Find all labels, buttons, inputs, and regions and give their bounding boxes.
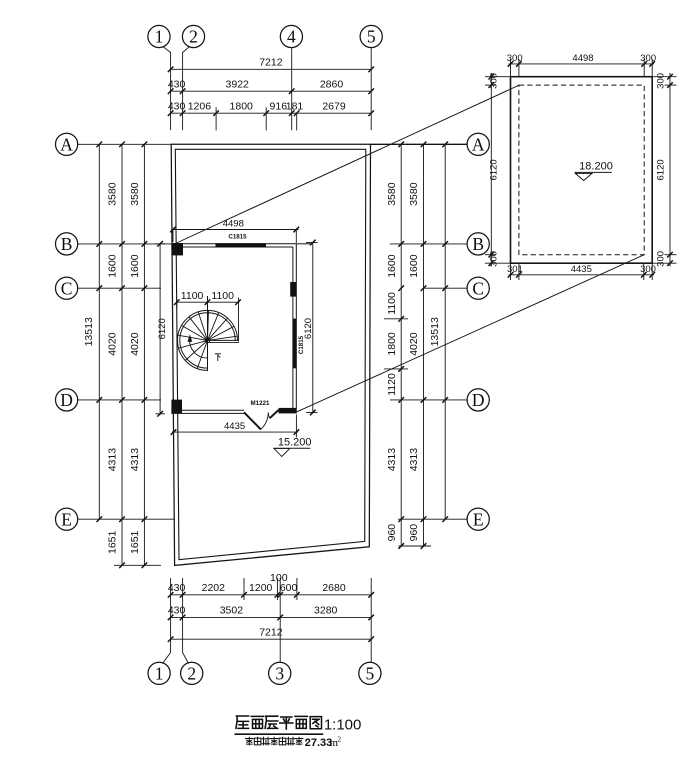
svg-text:2: 2 — [189, 27, 198, 47]
svg-text:4435: 4435 — [224, 421, 245, 432]
svg-text:3922: 3922 — [226, 79, 250, 91]
svg-text:5: 5 — [366, 663, 375, 683]
svg-text:C: C — [61, 278, 73, 298]
svg-text:301: 301 — [507, 264, 523, 275]
svg-text:300: 300 — [655, 73, 666, 89]
svg-text:1120: 1120 — [386, 373, 398, 396]
svg-text:300: 300 — [640, 264, 656, 275]
svg-text:4313: 4313 — [386, 448, 398, 472]
svg-text:2680: 2680 — [322, 582, 346, 594]
svg-text:4020: 4020 — [107, 332, 119, 356]
svg-text:960: 960 — [408, 524, 420, 542]
svg-text:1800: 1800 — [230, 101, 254, 113]
svg-text:M1221: M1221 — [251, 400, 270, 407]
svg-text:300: 300 — [488, 73, 499, 89]
svg-text:1651: 1651 — [129, 530, 141, 554]
svg-text:1: 1 — [155, 27, 164, 47]
svg-text:7212: 7212 — [259, 627, 283, 639]
svg-text:4020: 4020 — [129, 332, 141, 356]
svg-text:1100: 1100 — [181, 290, 204, 302]
svg-text:3580: 3580 — [129, 182, 141, 206]
svg-text:3580: 3580 — [107, 182, 119, 206]
svg-text:300: 300 — [507, 53, 523, 64]
svg-text:600: 600 — [280, 582, 298, 594]
svg-text:300: 300 — [488, 251, 499, 267]
svg-text:C: C — [472, 278, 484, 298]
svg-text:18.200: 18.200 — [579, 160, 613, 172]
svg-text:1206: 1206 — [188, 101, 212, 113]
svg-text:E: E — [473, 509, 484, 529]
svg-text:B: B — [472, 234, 484, 254]
svg-text:7212: 7212 — [259, 57, 283, 69]
svg-text:1600: 1600 — [408, 254, 420, 278]
svg-text:5: 5 — [367, 27, 376, 47]
svg-text:E: E — [61, 509, 72, 529]
svg-text:3: 3 — [275, 663, 284, 683]
svg-text:1600: 1600 — [107, 254, 119, 278]
svg-text:6120: 6120 — [655, 159, 666, 180]
svg-text:6120: 6120 — [488, 159, 499, 180]
svg-text:2: 2 — [187, 663, 196, 683]
svg-text:1100: 1100 — [211, 290, 234, 302]
svg-text:13513: 13513 — [429, 317, 441, 346]
svg-text:1100: 1100 — [386, 292, 398, 315]
svg-text:3580: 3580 — [386, 182, 398, 206]
svg-text:1: 1 — [155, 663, 164, 683]
svg-text:4498: 4498 — [572, 53, 593, 64]
svg-text:181: 181 — [286, 101, 304, 113]
svg-text:300: 300 — [640, 53, 656, 64]
svg-text:300: 300 — [655, 251, 666, 267]
svg-text:2860: 2860 — [320, 79, 344, 91]
svg-text:4020: 4020 — [408, 332, 420, 356]
svg-text:6120: 6120 — [303, 318, 314, 339]
svg-text:3280: 3280 — [314, 605, 338, 617]
svg-text:3502: 3502 — [220, 605, 244, 617]
svg-text:2202: 2202 — [202, 582, 226, 594]
svg-text:960: 960 — [386, 524, 398, 542]
svg-text:D: D — [60, 390, 73, 410]
svg-text:A: A — [472, 134, 485, 154]
svg-text:1200: 1200 — [249, 582, 273, 594]
svg-text:2: 2 — [338, 736, 342, 744]
svg-text:1600: 1600 — [129, 254, 141, 278]
svg-text:15.200: 15.200 — [278, 436, 312, 448]
svg-text:13513: 13513 — [83, 317, 95, 346]
svg-text:4: 4 — [287, 27, 296, 47]
svg-text:3580: 3580 — [408, 182, 420, 206]
svg-text:1651: 1651 — [107, 530, 119, 554]
svg-text:1600: 1600 — [386, 254, 398, 278]
svg-text:27.33: 27.33 — [305, 737, 333, 749]
svg-text:C1815: C1815 — [228, 233, 247, 240]
svg-text:4435: 4435 — [571, 264, 592, 275]
svg-text:1:100: 1:100 — [324, 717, 362, 734]
svg-text:A: A — [60, 134, 73, 154]
svg-text:4313: 4313 — [129, 448, 141, 472]
svg-text:D: D — [472, 390, 485, 410]
svg-text:6120: 6120 — [157, 318, 168, 339]
svg-text:4313: 4313 — [408, 448, 420, 472]
svg-text:B: B — [61, 234, 73, 254]
svg-text:2679: 2679 — [322, 101, 346, 113]
svg-text:4313: 4313 — [107, 448, 119, 472]
svg-text:1800: 1800 — [386, 332, 398, 356]
svg-text:916: 916 — [270, 101, 288, 113]
